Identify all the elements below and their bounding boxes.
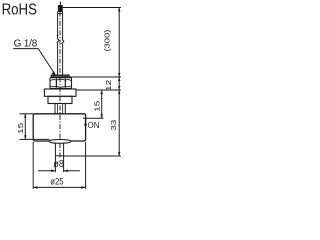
upper stem inner lines: [58, 104, 63, 114]
ON level ext line: [83, 117, 104, 119]
hex nut facet lines: [56, 78, 65, 87]
ext line washer top left: [20, 138, 50, 140]
centerline: [59, 12, 61, 158]
hex nut: [50, 78, 72, 89]
svg-text:G 1/8: G 1/8: [14, 39, 38, 50]
dim line 15 right: [101, 90, 103, 118]
leader arrowhead: [52, 71, 56, 75]
svg-text:ø25: ø25: [50, 177, 63, 187]
svg-text:33: 33: [109, 120, 117, 131]
upper stem: [55, 104, 65, 114]
lower stem right wall / dim ext: [63, 143, 65, 173]
cable wire: [59, 2, 61, 6]
svg-text:ø8: ø8: [53, 159, 64, 170]
dim line d25: [33, 186, 85, 188]
float body: [33, 114, 85, 141]
ext line float top left: [20, 113, 34, 115]
svg-text:15: 15: [93, 101, 101, 112]
ON down arrow: [85, 120, 87, 125]
svg-text:(300): (300): [102, 29, 111, 51]
tube left wall: [57, 12, 59, 76]
lower stem left wall / dim ext: [54, 143, 56, 173]
dim line 33: [118, 90, 120, 156]
cable entry block: [58, 6, 62, 12]
svg-text:15: 15: [16, 123, 24, 134]
tube right wall: [62, 12, 64, 76]
tube joint line: [58, 13, 63, 15]
dim line d8: [38, 170, 80, 172]
dim line 15 left: [24, 114, 26, 140]
G 1/8 underline and leader: [13, 49, 55, 74]
svg-text:ON: ON: [88, 120, 100, 130]
stem bottom line: [55, 155, 63, 157]
svg-text:12: 12: [104, 80, 112, 91]
ext line nut top: [70, 76, 121, 78]
hex nut facet arcs: [50, 79, 71, 87]
ext line stem bottom: [64, 155, 121, 157]
svg-text:RoHS: RoHS: [2, 2, 37, 19]
dim line 12: [118, 77, 120, 90]
ext line float left bottom: [32, 142, 34, 189]
ext line top of cable: [63, 7, 121, 9]
washer under float: [49, 140, 71, 144]
ext line float right bottom: [85, 142, 87, 189]
step block: [48, 96, 72, 103]
mounting flange: [44, 89, 76, 96]
ext line flange top: [77, 89, 121, 91]
dim line (300): [118, 8, 120, 78]
washer above nut: [51, 75, 69, 78]
